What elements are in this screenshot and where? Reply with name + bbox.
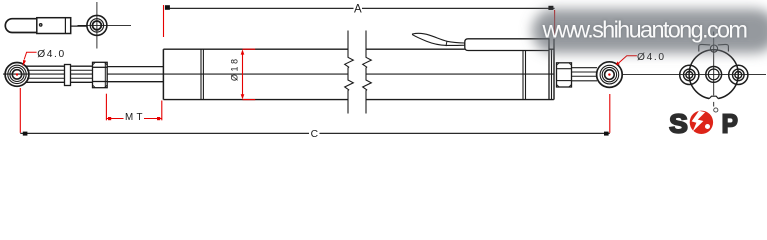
svg-text:Ø18: Ø18 xyxy=(230,59,240,81)
svg-text:C: C xyxy=(311,129,319,140)
svg-text:P: P xyxy=(722,109,738,139)
svg-text:A: A xyxy=(354,4,362,16)
svg-text:S: S xyxy=(669,109,688,139)
svg-text:Ø4.0: Ø4.0 xyxy=(637,52,664,63)
svg-text:www.shihuantong.com: www.shihuantong.com xyxy=(542,17,749,43)
svg-text:Ø4.0: Ø4.0 xyxy=(37,49,64,60)
svg-text:MT: MT xyxy=(125,112,143,123)
